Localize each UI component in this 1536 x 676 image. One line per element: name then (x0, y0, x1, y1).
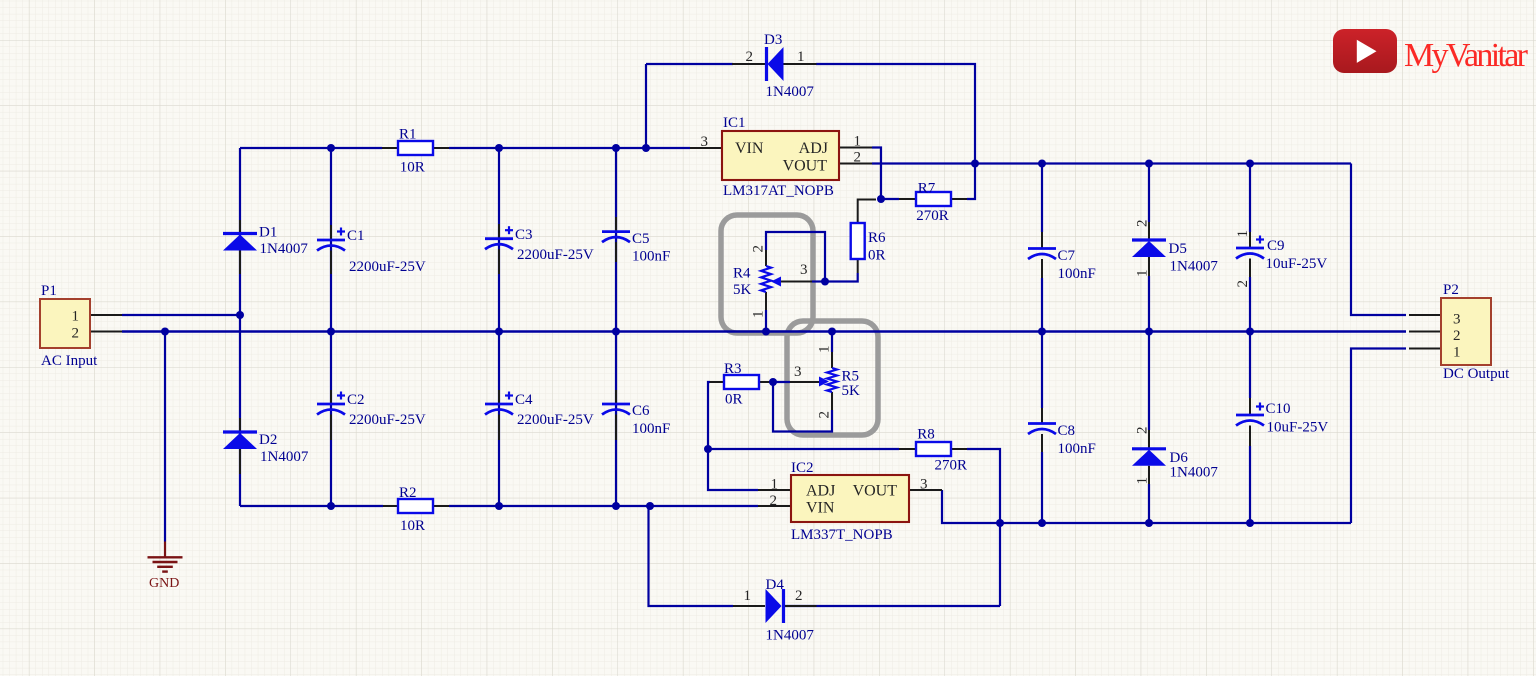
svg-text:2: 2 (1453, 328, 1461, 344)
regulator IC2 (791, 475, 909, 522)
pin stubs C4 (498, 390, 500, 404)
svg-text:R4: R4 (733, 266, 751, 282)
pin stubs C6 (615, 390, 617, 404)
svg-text:100nF: 100nF (1058, 441, 1096, 457)
wire R4 pin2 loop (766, 232, 825, 282)
wire R4 pin1 to bus (765, 310, 767, 332)
wire D6 column (1148, 332, 1150, 431)
pin stubs R4 (765, 250, 767, 266)
wire IC1 VIN riser (645, 64, 647, 148)
capacitor C8 (1028, 422, 1056, 425)
ground symbol GND (164, 542, 166, 558)
highlight box around potentiometer R5 (787, 321, 878, 435)
pin stubs R6 (858, 200, 876, 224)
svg-text:D5: D5 (1169, 241, 1187, 257)
pin stubs R7 (899, 198, 916, 200)
svg-text:C4: C4 (515, 392, 533, 408)
svg-text:2200uF-25V: 2200uF-25V (517, 247, 594, 263)
pin stubs D4 (733, 605, 765, 607)
svg-text:R6: R6 (868, 230, 886, 246)
resistor R7 (916, 192, 951, 206)
svg-text:R3: R3 (724, 361, 742, 377)
svg-text:270R: 270R (935, 458, 968, 474)
capacitor C9 (1236, 247, 1264, 250)
svg-text:2: 2 (751, 245, 767, 253)
svg-text:1: 1 (1235, 230, 1251, 238)
wire R3 right to R5 wiper (773, 381, 790, 383)
svg-text:P1: P1 (41, 283, 57, 299)
wire D4 left drop (649, 506, 734, 606)
svg-text:3: 3 (794, 364, 802, 380)
svg-text:D1: D1 (259, 225, 277, 241)
wire R8 right to D4 riser (967, 449, 1000, 606)
svg-text:R2: R2 (399, 485, 417, 501)
svg-text:0R: 0R (868, 248, 886, 264)
wire main center bus (122, 330, 1406, 332)
svg-text:2: 2 (746, 49, 754, 65)
svg-text:1N4007: 1N4007 (1170, 465, 1219, 481)
capacitor C2 (317, 403, 345, 406)
resistor R3 (724, 375, 759, 389)
svg-text:270R: 270R (916, 208, 949, 224)
diode D6 (1132, 447, 1166, 450)
wire R7 left (881, 198, 899, 200)
svg-text:0R: 0R (725, 392, 743, 408)
svg-text:1N4007: 1N4007 (766, 628, 815, 644)
pin stubs D6 (1148, 430, 1150, 449)
wire C9 column (1249, 164, 1251, 233)
svg-text:1: 1 (1135, 477, 1151, 485)
wire R8 row (708, 448, 899, 450)
svg-text:1: 1 (797, 49, 805, 65)
svg-text:100nF: 100nF (632, 249, 670, 265)
wire low rail corner to P2 pin1 (1351, 349, 1406, 524)
svg-text:IC2: IC2 (791, 460, 814, 476)
op-amp regulator IC1 (722, 131, 839, 180)
svg-text:R1: R1 (399, 127, 417, 143)
wire bottom rail (240, 505, 383, 507)
svg-text:3: 3 (920, 477, 928, 493)
resistor R8 (916, 442, 951, 456)
svg-text:1: 1 (1453, 345, 1461, 361)
wire top rail VIN net (240, 147, 382, 149)
svg-text:R8: R8 (917, 427, 935, 443)
svg-text:D4: D4 (766, 577, 785, 593)
svg-text:AC Input: AC Input (41, 353, 98, 369)
svg-text:2: 2 (770, 493, 778, 509)
resistor R2 (398, 499, 433, 513)
svg-text:5K: 5K (733, 282, 752, 298)
connector P1 (40, 299, 90, 348)
wire D3 net top (646, 63, 733, 65)
svg-text:2: 2 (72, 326, 80, 342)
svg-text:C9: C9 (1267, 238, 1285, 254)
wire R5 pin2 loop (773, 382, 832, 432)
svg-text:C10: C10 (1266, 401, 1291, 417)
svg-text:VIN: VIN (735, 140, 764, 157)
svg-text:10R: 10R (400, 160, 425, 176)
pin stub IC2 VOUT (909, 489, 942, 491)
svg-text:1: 1 (744, 588, 752, 604)
svg-text:VIN: VIN (806, 500, 835, 517)
svg-text:P2: P2 (1443, 282, 1459, 298)
potentiometer R4 (761, 266, 771, 292)
pin stubs P2 (1409, 314, 1441, 316)
pin stubs C2 (330, 390, 332, 404)
wire C8 column (1041, 332, 1043, 409)
pin stubs D2 (239, 418, 241, 432)
wire C5/C6 column (615, 148, 617, 506)
wire C7 column (1041, 164, 1043, 233)
pin stubs R8 (899, 448, 916, 450)
svg-text:2: 2 (795, 588, 803, 604)
svg-text:2: 2 (1135, 427, 1151, 435)
svg-text:100nF: 100nF (632, 421, 670, 437)
pin stubs D5 (1148, 222, 1150, 240)
pin stub IC1 VIN (690, 147, 722, 149)
svg-text:1: 1 (854, 134, 862, 150)
svg-text:3: 3 (800, 262, 808, 278)
capacitor C4 (485, 403, 513, 406)
svg-text:DC Output: DC Output (1443, 366, 1510, 382)
diode D4 (782, 589, 785, 623)
highlight box around potentiometer R4 (721, 215, 813, 333)
svg-text:2200uF-25V: 2200uF-25V (349, 412, 426, 428)
pin stubs C1 (330, 225, 332, 240)
svg-text:1: 1 (72, 309, 80, 325)
svg-text:1N4007: 1N4007 (1170, 259, 1219, 275)
svg-text:1: 1 (751, 311, 767, 319)
svg-text:2: 2 (1235, 280, 1251, 288)
svg-text:C6: C6 (632, 403, 650, 419)
svg-text:1: 1 (817, 346, 833, 354)
wire P1 pin1 to D1 column (122, 314, 240, 316)
svg-text:1N4007: 1N4007 (260, 241, 309, 257)
wire IC1 ADJ to junction (872, 148, 881, 200)
resistor R1 (398, 141, 433, 155)
pin stubs P1 (90, 314, 122, 316)
wire R6 bottom elbow (825, 273, 858, 282)
wire IC2 VOUT down to low rail (942, 490, 1351, 523)
svg-text:ADJ: ADJ (806, 483, 835, 500)
diode D3 (765, 47, 768, 81)
svg-text:D3: D3 (764, 32, 782, 48)
potentiometer R5 (827, 368, 837, 392)
wire R3 left riser (708, 382, 758, 490)
pin stubs D3 (732, 63, 766, 65)
connector P2 (1441, 298, 1491, 365)
svg-text:C1: C1 (347, 228, 365, 244)
pin stubs R5 (831, 352, 833, 368)
svg-text:C2: C2 (347, 392, 365, 408)
pin stubs R2 (383, 505, 398, 507)
svg-text:2: 2 (1135, 220, 1151, 228)
svg-text:IC1: IC1 (723, 115, 746, 131)
wire R4 wiper to junction (812, 280, 825, 282)
diode D1 (223, 232, 257, 235)
svg-text:5K: 5K (842, 383, 861, 399)
svg-text:C3: C3 (515, 227, 533, 243)
svg-text:1: 1 (1135, 270, 1151, 278)
wire R5 pin1 from bus (831, 332, 833, 353)
pin stubs C3 (498, 224, 500, 239)
svg-text:R7: R7 (918, 181, 936, 197)
svg-text:2: 2 (854, 150, 862, 166)
svg-text:C8: C8 (1058, 423, 1076, 439)
resistor R6 (851, 223, 865, 259)
svg-text:LM317AT_NOPB: LM317AT_NOPB (723, 183, 834, 199)
pin stubs D1 (239, 220, 241, 234)
wire D4 right (784, 605, 1000, 607)
wire VOUT rail (872, 162, 1351, 164)
capacitor C6 (602, 403, 630, 406)
capacitor C1 (317, 239, 345, 242)
svg-text:MyVanitar: MyVanitar (1404, 37, 1529, 74)
capacitor C10 (1236, 414, 1264, 417)
svg-text:ADJ: ADJ (799, 140, 828, 157)
svg-text:D2: D2 (259, 432, 277, 448)
svg-text:C7: C7 (1058, 248, 1076, 264)
svg-text:C5: C5 (632, 231, 650, 247)
svg-text:100nF: 100nF (1058, 266, 1096, 282)
svg-text:2200uF-25V: 2200uF-25V (517, 412, 594, 428)
svg-text:3: 3 (1453, 312, 1461, 328)
pin stubs C10 (1249, 398, 1251, 415)
capacitor C7 (1028, 247, 1056, 250)
pin stubs R3 (710, 381, 724, 383)
capacitor C5 (602, 230, 630, 233)
svg-text:1: 1 (771, 477, 779, 493)
pin stubs R1 (382, 147, 398, 149)
pin stubs C8 (1041, 408, 1043, 424)
wire GND drop (164, 332, 166, 542)
diode D5 (1132, 238, 1166, 241)
wire D1/D2 column (239, 148, 241, 506)
pin stubs IC1 right (839, 147, 872, 149)
svg-text:10uF-25V: 10uF-25V (1267, 420, 1329, 436)
diode D2 (223, 430, 257, 433)
capacitor C3 (485, 237, 513, 240)
svg-text:1N4007: 1N4007 (260, 449, 309, 465)
pin stubs C9 (1249, 232, 1251, 248)
MyVanitar logo (1333, 29, 1397, 73)
wire VOUT rail corner to P2 pin3 (1351, 164, 1406, 316)
wire C1/C2 column (330, 148, 332, 506)
pin stubs IC2 left (758, 489, 791, 491)
wire D5 column (1148, 164, 1150, 223)
svg-text:LM337T_NOPB: LM337T_NOPB (791, 527, 893, 543)
svg-text:1N4007: 1N4007 (766, 84, 815, 100)
svg-text:GND: GND (149, 576, 179, 591)
svg-text:10R: 10R (400, 518, 425, 534)
wire C3/C4 column (498, 148, 500, 506)
wire R7 right riser (967, 164, 975, 200)
wire C10 column (1249, 332, 1251, 399)
svg-text:VOUT: VOUT (853, 483, 898, 500)
svg-text:2200uF-25V: 2200uF-25V (349, 259, 426, 275)
junction dots (161, 328, 169, 336)
svg-text:10uF-25V: 10uF-25V (1266, 256, 1328, 272)
pin stubs C5 (615, 217, 617, 232)
svg-text:VOUT: VOUT (783, 158, 828, 175)
svg-text:2: 2 (817, 411, 833, 419)
pin stubs C7 (1041, 232, 1043, 249)
svg-text:3: 3 (701, 134, 709, 150)
